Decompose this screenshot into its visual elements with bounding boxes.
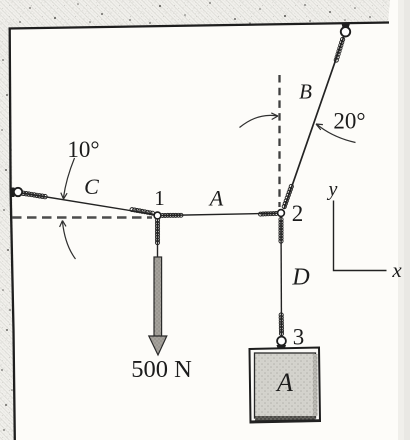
svg-text:2: 2 (292, 201, 304, 226)
svg-text:A: A (208, 186, 224, 211)
svg-text:500 N: 500 N (131, 356, 192, 383)
svg-text:D: D (291, 265, 309, 291)
svg-text:A: A (275, 368, 293, 397)
svg-text:3: 3 (293, 325, 305, 350)
svg-text:20°: 20° (333, 109, 365, 134)
svg-text:y: y (327, 179, 338, 201)
svg-text:x: x (391, 258, 402, 282)
svg-text:10°: 10° (67, 137, 99, 162)
svg-text:C: C (84, 174, 99, 199)
svg-text:1: 1 (154, 186, 165, 210)
svg-text:B: B (299, 80, 312, 104)
